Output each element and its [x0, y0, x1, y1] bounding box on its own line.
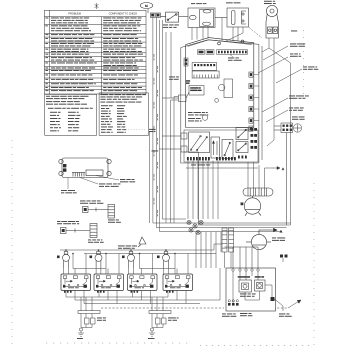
wires elements to switches — [64, 254, 188, 275]
left vertical wire bus — [153, 18, 171, 232]
harness connector J2 — [57, 221, 79, 224]
door switch — [226, 1, 240, 4]
relay K2 — [211, 137, 220, 158]
convection motor — [241, 196, 261, 216]
main top feed label — [140, 3, 153, 14]
relay cluster board — [184, 130, 258, 162]
relay cluster edge tabs — [159, 133, 187, 152]
oven relay bake — [238, 277, 252, 293]
oven relay broil — [255, 277, 266, 292]
relay K5 — [236, 142, 248, 153]
surface switch SW1 — [61, 274, 91, 291]
oven terminal block — [243, 188, 273, 196]
board edge tab — [162, 95, 186, 102]
wires door area to board — [192, 18, 274, 147]
surface element 3 — [122, 250, 135, 268]
page edge dotted guides — [12, 30, 315, 346]
svg-text:PROBLEM: PROBLEM — [68, 12, 81, 16]
wire nut splice — [118, 246, 137, 249]
board edge stub wires — [254, 75, 259, 121]
svg-text:COMPONENT TO CHECK: COMPONENT TO CHECK — [109, 13, 138, 16]
relay K4 — [236, 128, 248, 140]
board connector block P1 — [192, 63, 219, 78]
wires terminal block up — [248, 162, 284, 188]
board relay RY2 — [224, 79, 233, 98]
right small splice connector — [280, 255, 288, 263]
console enclosure outline — [181, 40, 262, 163]
board fuse F1 — [184, 58, 190, 84]
interconnect dashed line — [101, 307, 288, 309]
relay terminal squares — [251, 128, 258, 149]
relay board labels — [68, 176, 119, 190]
surface element 2 — [90, 250, 103, 268]
oven box terminals — [225, 247, 275, 306]
troubleshooting table — [44, 10, 146, 94]
door lock assembly — [191, 2, 206, 5]
svg-text:A: A — [282, 167, 284, 171]
board buzzer — [219, 84, 225, 90]
right side wire labels — [289, 31, 318, 111]
board cap — [202, 99, 218, 121]
supply line junction dots — [65, 249, 176, 254]
oven light cluster 2 — [149, 297, 171, 336]
line break label — [169, 77, 179, 80]
relay K1 — [189, 132, 210, 153]
oven relay labels — [240, 294, 256, 297]
notes box right (resistance table) — [99, 93, 148, 135]
cluster lower rail — [186, 167, 258, 169]
lower enclosure (oven cavity) — [184, 152, 291, 225]
crossover bus wires — [153, 219, 291, 232]
surface switch SW3 — [128, 274, 158, 291]
reference asterisk — [95, 3, 99, 9]
oven selector assembly — [226, 268, 276, 311]
relay board terminal combs — [187, 156, 247, 161]
faint fold mark wire — [118, 129, 146, 131]
bus wiring under switches — [66, 268, 220, 304]
surface relay board — [59, 158, 111, 178]
splice annotation — [149, 129, 156, 132]
surface switch SW2 — [94, 274, 124, 291]
oven box lower terminal circles — [228, 300, 238, 302]
oven box internal wires — [233, 271, 272, 303]
svg-text:M: M — [241, 202, 244, 206]
door latch switch — [161, 12, 179, 22]
surface switch SW4 — [163, 274, 193, 291]
harness connector strip — [222, 228, 234, 252]
oven light cluster 1 — [78, 297, 100, 336]
oven box bottom leads — [275, 299, 284, 311]
wires bus to lower components — [196, 232, 231, 268]
surface element supply lines — [60, 244, 222, 254]
top feed connector — [151, 13, 161, 18]
relay K3 — [222, 140, 233, 159]
ribbon connector — [198, 50, 248, 55]
electronic control board — [186, 38, 254, 128]
wires relay cluster to bus — [188, 161, 218, 220]
wire nut junction cluster — [187, 220, 203, 234]
board edge connector strip — [249, 72, 253, 131]
cooling fan connector and fan — [292, 117, 305, 120]
surface element 4 — [157, 250, 170, 268]
door lock motor — [264, 1, 276, 4]
console right feed wires — [269, 48, 291, 225]
board relay RY1 — [186, 86, 204, 99]
notes box left (wiring code) — [45, 94, 97, 135]
harness connector J1 — [80, 201, 103, 204]
surface element 1 — [57, 250, 70, 268]
board tab elbow wires — [171, 97, 179, 224]
cooling blower motor — [246, 228, 282, 249]
board text labels — [188, 112, 208, 121]
